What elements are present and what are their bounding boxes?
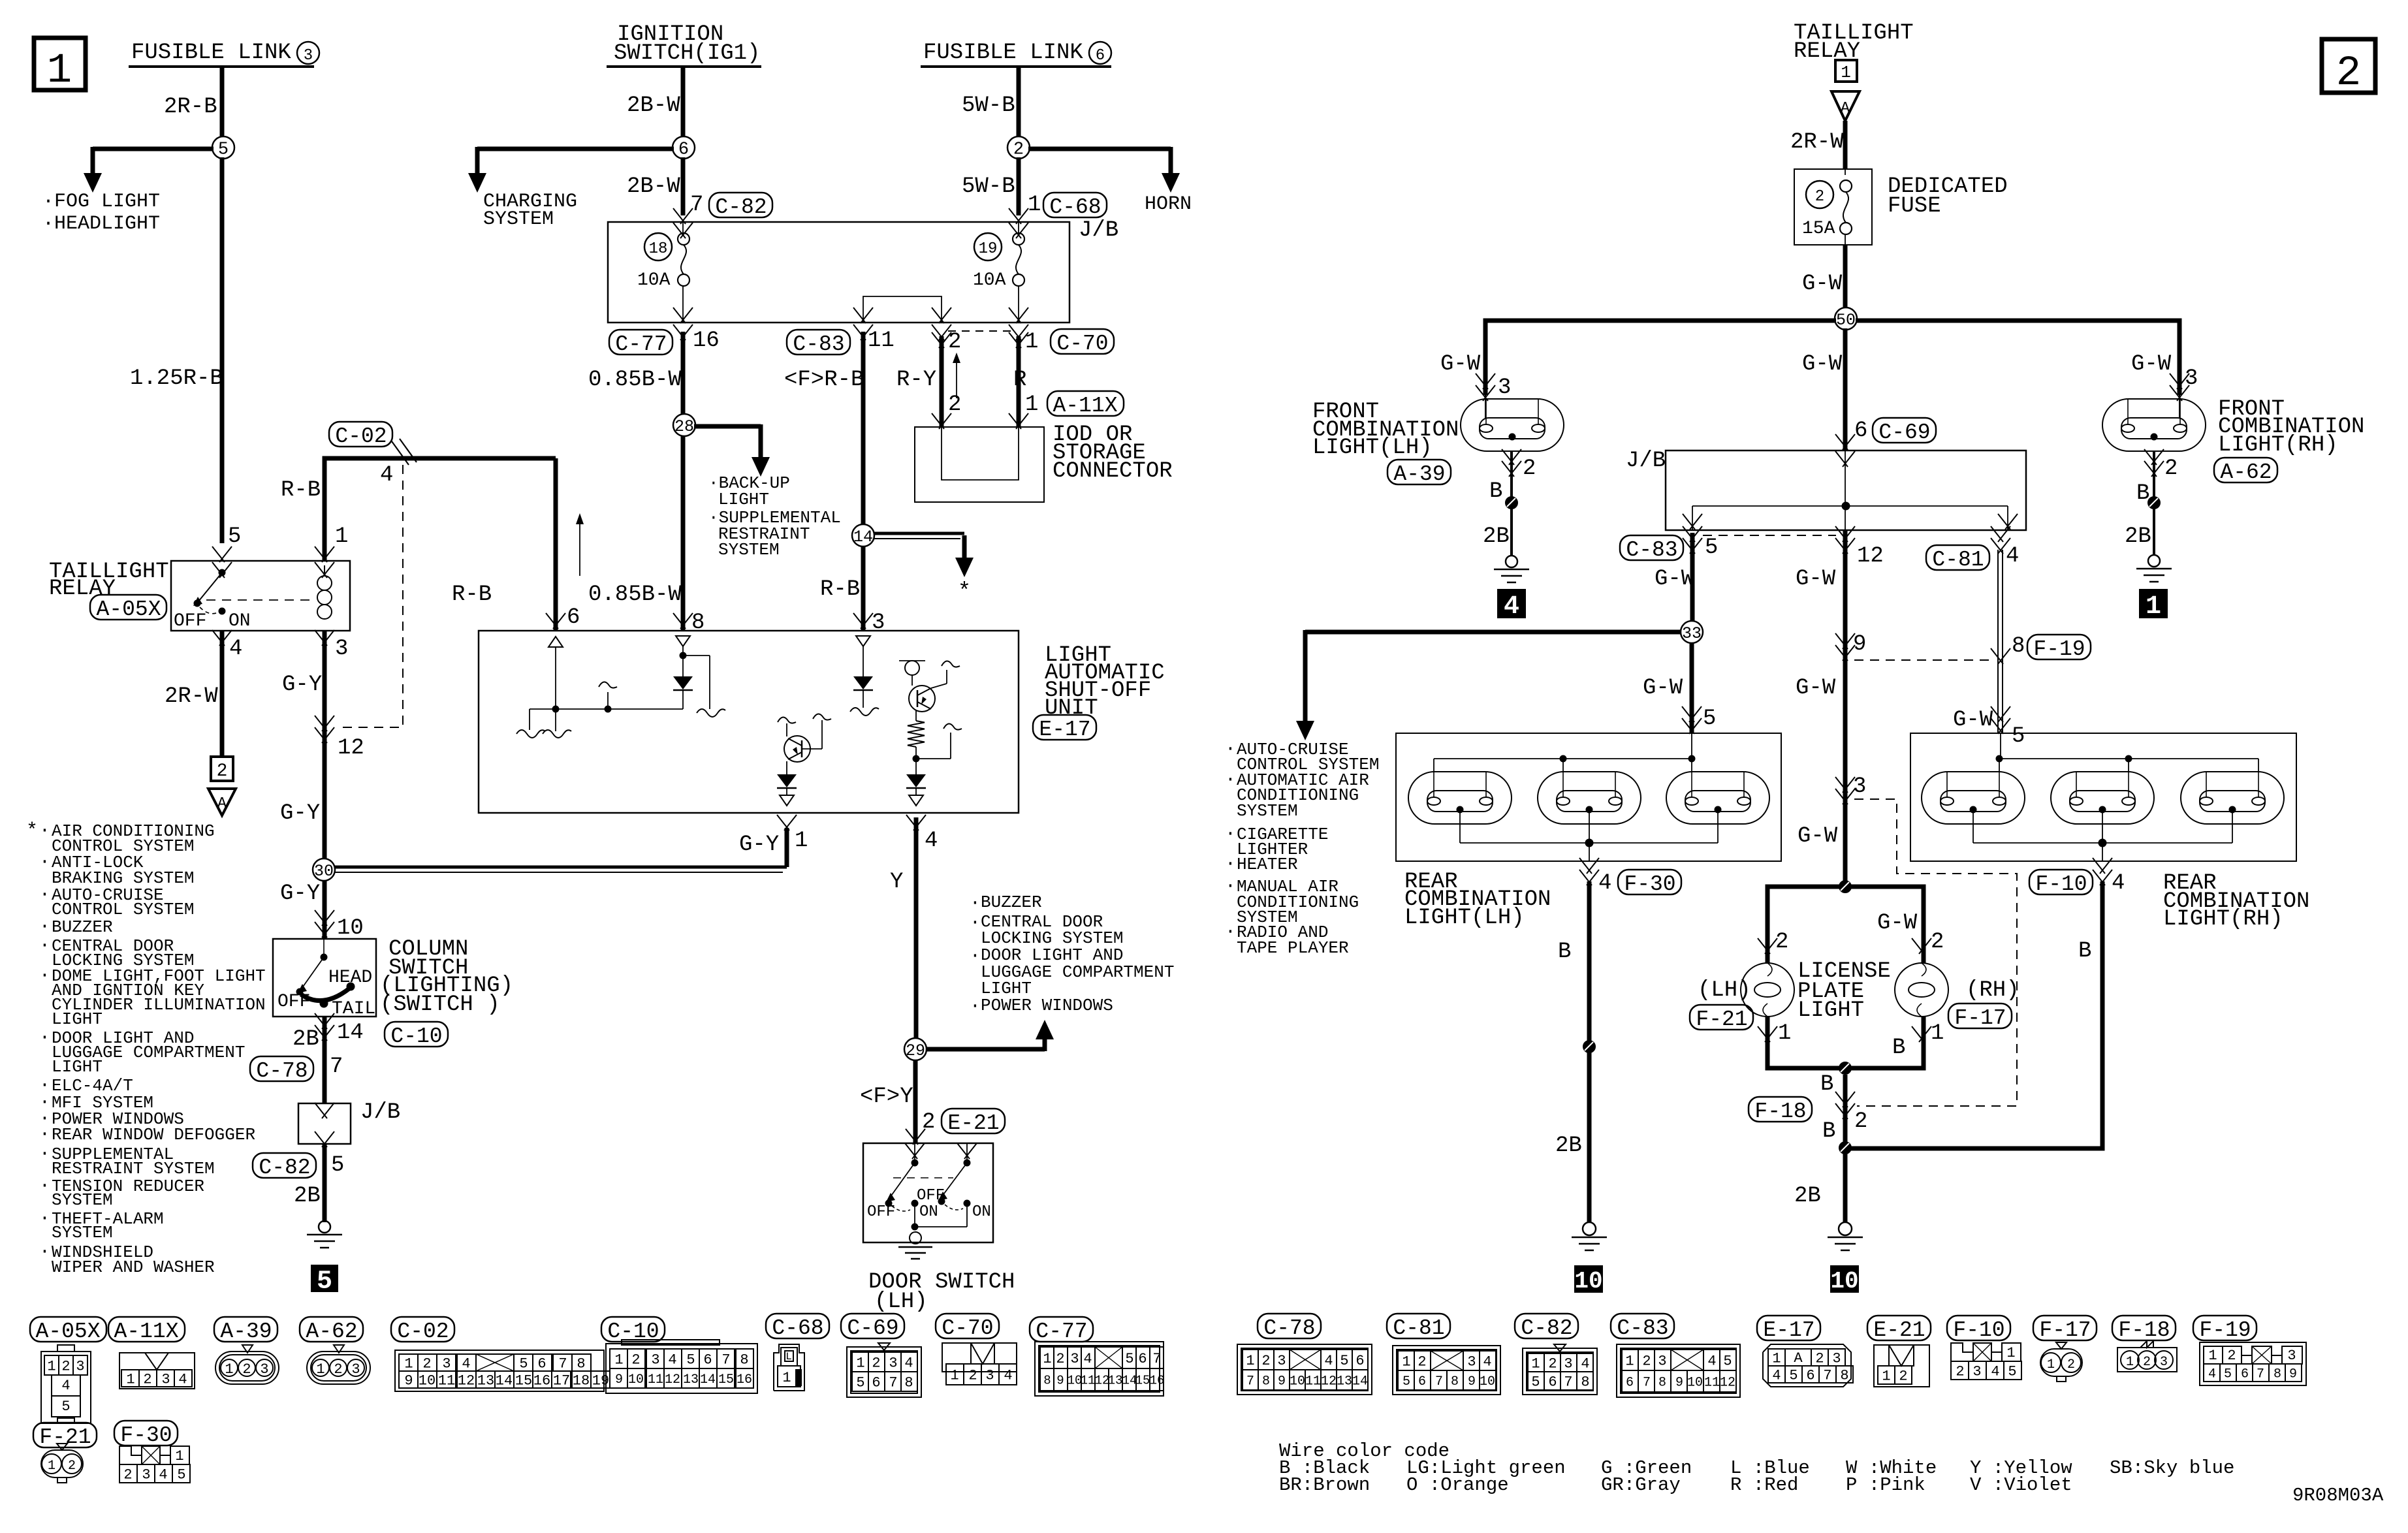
license plate loop box bbox=[1767, 881, 1924, 1074]
svg-text:2B: 2B bbox=[1555, 1133, 1582, 1158]
rear LH bulb 1 bbox=[1408, 772, 1512, 824]
svg-text:28: 28 bbox=[674, 417, 694, 436]
front combination light RH bulb bbox=[2102, 395, 2206, 451]
svg-text:7: 7 bbox=[1823, 1367, 1831, 1383]
svg-text:HEATER: HEATER bbox=[1237, 855, 1298, 874]
svg-text:11: 11 bbox=[868, 328, 895, 353]
door switch OFF ON labels bbox=[867, 1187, 991, 1221]
svg-text:3: 3 bbox=[260, 1361, 268, 1378]
pin 2 license RH bbox=[1931, 930, 1944, 955]
crossing marks on C-02 wire bbox=[392, 439, 417, 465]
pin 10 bbox=[315, 910, 364, 941]
svg-text:5: 5 bbox=[218, 140, 229, 160]
svg-text:3: 3 bbox=[1277, 1353, 1286, 1369]
wire node50 down bbox=[1843, 328, 1848, 450]
column switch box C-10 bbox=[273, 939, 376, 1017]
svg-text:2: 2 bbox=[1956, 1363, 1964, 1380]
svg-text:4: 4 bbox=[1004, 1367, 1012, 1383]
svg-text:11: 11 bbox=[1305, 1374, 1321, 1389]
black box 4 bbox=[1498, 590, 1525, 622]
svg-text:2: 2 bbox=[1418, 1353, 1426, 1370]
fuse 18 bbox=[673, 222, 693, 323]
svg-text:E-17: E-17 bbox=[1763, 1318, 1814, 1342]
label LICENSE PLATE LIGHT bbox=[1798, 959, 1891, 1023]
connector F-17 bbox=[2033, 1316, 2097, 1382]
svg-text:7: 7 bbox=[1152, 1351, 1161, 1367]
capsule F-18 bbox=[1749, 1097, 1812, 1124]
svg-text:8: 8 bbox=[1043, 1373, 1051, 1387]
wire node30 down bbox=[323, 880, 327, 939]
wire R down to IOD bbox=[1009, 332, 1028, 429]
svg-text:2: 2 bbox=[968, 1367, 977, 1383]
wire Y down to node29 bbox=[914, 817, 919, 1039]
pin 12 marks bbox=[315, 716, 364, 761]
connector E-17 bbox=[1757, 1316, 1853, 1387]
svg-text:C-02: C-02 bbox=[335, 424, 387, 449]
svg-text:LIGHT(RH): LIGHT(RH) bbox=[2218, 433, 2338, 458]
svg-text:6: 6 bbox=[537, 1355, 546, 1372]
connector A-62 bbox=[300, 1317, 370, 1384]
svg-text:18: 18 bbox=[649, 240, 668, 258]
svg-text:7: 7 bbox=[889, 1374, 897, 1391]
svg-text:4: 4 bbox=[1991, 1363, 1999, 1380]
capsule A-39 bbox=[1387, 460, 1451, 486]
rear LH internal wiring bbox=[1434, 733, 1718, 861]
svg-text:2: 2 bbox=[217, 761, 228, 782]
svg-text:5: 5 bbox=[331, 1153, 344, 1178]
wire node2 down bbox=[1017, 157, 1021, 215]
capsule F-17 bbox=[1948, 1004, 2012, 1030]
svg-text:1: 1 bbox=[1772, 1350, 1781, 1367]
svg-text:13: 13 bbox=[1337, 1374, 1352, 1389]
svg-text:3: 3 bbox=[1467, 1353, 1476, 1370]
pin 7 (C-82) bbox=[673, 193, 703, 224]
wire node2 to horn arrow bbox=[1028, 147, 1180, 193]
pin 3 (relay) bbox=[315, 630, 348, 661]
svg-text:9: 9 bbox=[1468, 1374, 1476, 1389]
svg-text:2R-W: 2R-W bbox=[165, 684, 218, 709]
svg-text:6: 6 bbox=[1548, 1374, 1557, 1390]
wire main down to license box bbox=[1843, 530, 1848, 887]
dashed link 9-8 bbox=[1854, 659, 1991, 661]
svg-text:2: 2 bbox=[334, 1361, 342, 1378]
pin 16 bbox=[673, 324, 720, 353]
label 2B-W lower bbox=[627, 174, 680, 199]
svg-text:7: 7 bbox=[2257, 1367, 2264, 1382]
svg-text:F-18: F-18 bbox=[1754, 1099, 1806, 1124]
wire 11 down (R-B) bbox=[861, 332, 866, 631]
svg-text:7: 7 bbox=[1564, 1374, 1572, 1390]
svg-text:A-39: A-39 bbox=[1393, 462, 1445, 486]
rear RH bulb 3 bbox=[2181, 772, 2284, 824]
svg-text:12: 12 bbox=[1857, 544, 1884, 569]
svg-text:0.85B-W: 0.85B-W bbox=[588, 582, 682, 607]
svg-text:3: 3 bbox=[161, 1371, 170, 1387]
svg-text:C-70: C-70 bbox=[942, 1316, 993, 1340]
svg-text:·: · bbox=[39, 1176, 50, 1196]
node 33 bbox=[1681, 621, 1703, 643]
svg-text:LIGHT(RH): LIGHT(RH) bbox=[2163, 907, 2283, 932]
svg-text:ON: ON bbox=[972, 1203, 991, 1221]
pin 2 (F-18) bbox=[1835, 1092, 1867, 1134]
pin 9 (main) bbox=[1835, 632, 1866, 661]
connector F-10 bbox=[1947, 1316, 2021, 1380]
svg-text:C-77: C-77 bbox=[1036, 1320, 1087, 1344]
wire fl6 to node 2 bbox=[1017, 67, 1021, 138]
svg-text:5: 5 bbox=[1723, 1353, 1732, 1369]
relay armature bbox=[193, 562, 334, 614]
svg-text:9: 9 bbox=[1056, 1373, 1064, 1387]
ground rear LH bbox=[1572, 1222, 1607, 1250]
svg-text:C-69: C-69 bbox=[847, 1316, 898, 1340]
svg-text:3: 3 bbox=[351, 1361, 360, 1378]
svg-text:14: 14 bbox=[337, 1020, 364, 1045]
unit: transistor Q1 bbox=[778, 714, 831, 774]
IOD box bbox=[915, 427, 1044, 502]
svg-text:9: 9 bbox=[404, 1372, 413, 1389]
label DOOR SWITCH (LH) bbox=[868, 1270, 1015, 1314]
svg-text:1: 1 bbox=[795, 829, 808, 853]
svg-text:1: 1 bbox=[1778, 1021, 1791, 1046]
light automatic shut-off unit box E-17 bbox=[479, 631, 1019, 813]
connector F-18 bbox=[2112, 1316, 2177, 1372]
label G-Y lower bbox=[280, 881, 320, 906]
wire node6 down bbox=[681, 157, 686, 215]
svg-text:2: 2 bbox=[422, 1355, 431, 1372]
label IOD OR STORAGE CONNECTOR bbox=[1053, 422, 1173, 484]
dashed link 5-12 bbox=[1703, 535, 1836, 536]
label G-Y upper bbox=[282, 672, 322, 697]
svg-text:3: 3 bbox=[2160, 1355, 2168, 1370]
svg-text:CONNECTOR: CONNECTOR bbox=[1053, 459, 1173, 484]
pin 2 (E-21) bbox=[906, 1110, 935, 1145]
svg-text:5W-B: 5W-B bbox=[962, 93, 1015, 118]
svg-text:13: 13 bbox=[1108, 1373, 1123, 1387]
svg-text:17: 17 bbox=[553, 1372, 570, 1389]
connector C-78 bbox=[1237, 1314, 1372, 1395]
svg-text:11: 11 bbox=[1081, 1373, 1096, 1387]
fuse 18 circle bbox=[644, 233, 672, 261]
label <F>Y bbox=[860, 1084, 913, 1109]
svg-text:G-W: G-W bbox=[1796, 567, 1836, 592]
label CHARGING SYSTEM bbox=[483, 191, 577, 230]
svg-text:2B: 2B bbox=[294, 1184, 321, 1209]
label 15A bbox=[1802, 219, 1835, 239]
svg-text:FUSIBLE LINK: FUSIBLE LINK bbox=[131, 40, 291, 65]
svg-text:*: * bbox=[958, 580, 971, 605]
triangle A ref bbox=[208, 789, 236, 815]
svg-text:G-W: G-W bbox=[1802, 352, 1843, 377]
J/B box panel1 bbox=[608, 218, 1118, 323]
svg-text:SYSTEM: SYSTEM bbox=[52, 1223, 113, 1242]
svg-text:A: A bbox=[1794, 1350, 1803, 1367]
svg-text:1: 1 bbox=[614, 1351, 623, 1368]
svg-text:30: 30 bbox=[314, 862, 334, 881]
double wire node30 to unit pin1 bbox=[334, 828, 787, 872]
F-19 double wire bbox=[1998, 550, 2003, 733]
pin 2 front LH bbox=[1502, 449, 1536, 481]
capsule A-11X bbox=[1047, 391, 1124, 418]
label 2R-W p2 bbox=[1790, 130, 1844, 155]
wire node6 to charging arrow bbox=[468, 147, 674, 193]
svg-text:15A: 15A bbox=[1802, 219, 1835, 239]
box 1 ref p2 bbox=[1835, 60, 1857, 82]
panel marker 2 bbox=[2322, 39, 2375, 97]
svg-text:(LH): (LH) bbox=[874, 1289, 928, 1314]
wire front LH to ground bbox=[1506, 451, 1517, 556]
svg-text:5: 5 bbox=[856, 1374, 864, 1391]
rear combination light LH box bbox=[1396, 733, 1781, 861]
capsule C-69 bbox=[1873, 418, 1936, 445]
label (RH) license bbox=[1966, 978, 2020, 1003]
svg-text:1: 1 bbox=[2208, 1348, 2217, 1364]
svg-text:2: 2 bbox=[68, 1459, 76, 1474]
svg-text:8: 8 bbox=[1840, 1367, 1848, 1383]
main rail from node 50 bbox=[1485, 321, 2179, 395]
svg-text:4: 4 bbox=[1707, 1353, 1716, 1369]
column switch contacts bbox=[296, 939, 355, 1007]
svg-text:C-10: C-10 bbox=[390, 1024, 442, 1049]
pin 2 (C-70) bbox=[932, 324, 961, 355]
capsule F-30 bbox=[1618, 870, 1681, 896]
label FRONT COMBINATION LIGHT(LH) bbox=[1312, 400, 1459, 460]
wire node33 to autocruise arrow bbox=[1296, 630, 1681, 740]
svg-text:A-11X: A-11X bbox=[114, 1320, 178, 1344]
svg-text:1: 1 bbox=[2126, 1355, 2134, 1370]
svg-text:9: 9 bbox=[1853, 632, 1866, 657]
svg-text:8: 8 bbox=[904, 1374, 913, 1391]
connector E-21 bbox=[1867, 1316, 1931, 1387]
svg-text:CONTROL SYSTEM: CONTROL SYSTEM bbox=[52, 900, 194, 919]
svg-text:1: 1 bbox=[782, 1370, 791, 1386]
svg-text:OFF: OFF bbox=[867, 1203, 895, 1221]
svg-text:2: 2 bbox=[1523, 456, 1536, 481]
svg-text:1: 1 bbox=[1882, 1368, 1890, 1384]
capsule E-21 mid bbox=[942, 1109, 1005, 1135]
pin 1 (C-68) bbox=[1009, 193, 1041, 224]
label G-W right rail bbox=[2131, 352, 2172, 377]
svg-text:F-17: F-17 bbox=[1954, 1006, 2006, 1030]
svg-text:2: 2 bbox=[1013, 140, 1024, 160]
svg-text:·: · bbox=[1225, 922, 1236, 942]
svg-text:2B: 2B bbox=[293, 1027, 319, 1052]
svg-text:1: 1 bbox=[950, 1367, 958, 1383]
svg-text:A-62: A-62 bbox=[2220, 460, 2272, 484]
label 1.25R-B bbox=[130, 366, 223, 391]
wire node33 down to rear LH bbox=[1690, 642, 1694, 733]
label R bbox=[1013, 368, 1026, 392]
svg-text:·: · bbox=[970, 893, 981, 913]
label 2B main bbox=[1794, 1184, 1821, 1209]
node 30 bbox=[313, 859, 335, 881]
svg-text:J/B: J/B bbox=[1626, 449, 1666, 473]
svg-text:1: 1 bbox=[1625, 1353, 1634, 1369]
svg-text:4: 4 bbox=[2006, 544, 2019, 569]
pin 4 label (C-02) bbox=[380, 463, 393, 488]
svg-text:11: 11 bbox=[648, 1372, 663, 1387]
svg-text:2B-W: 2B-W bbox=[627, 174, 680, 199]
svg-text:·: · bbox=[39, 821, 50, 841]
dashed wire C-02-4 to pin 12 bbox=[337, 465, 403, 727]
svg-text:1: 1 bbox=[1246, 1353, 1254, 1369]
label G-W (main mid) bbox=[1796, 567, 1836, 592]
wire ign to node 6 bbox=[681, 67, 686, 138]
wire relay pin3 G-Y down bbox=[323, 631, 327, 859]
svg-text:G-W: G-W bbox=[1440, 352, 1481, 377]
svg-text:5: 5 bbox=[1705, 535, 1718, 560]
wire R-Y down to IOD bbox=[932, 332, 951, 429]
svg-text:1: 1 bbox=[2006, 1345, 2015, 1361]
svg-text:8: 8 bbox=[577, 1355, 585, 1372]
relay coil bbox=[317, 565, 332, 619]
wire node5 down 1.25R-B bbox=[220, 157, 225, 543]
svg-text:1: 1 bbox=[1028, 193, 1041, 217]
node 2 bbox=[1007, 136, 1030, 160]
capsule C-82 top bbox=[709, 193, 772, 219]
svg-text:10A: 10A bbox=[637, 270, 671, 291]
svg-text:1: 1 bbox=[1402, 1353, 1410, 1370]
svg-text:F-19: F-19 bbox=[2199, 1318, 2251, 1342]
svg-text:R-B: R-B bbox=[820, 577, 860, 602]
pin 4 (F-10) bbox=[2093, 858, 2125, 896]
svg-text:C-68: C-68 bbox=[772, 1316, 823, 1340]
svg-text:9: 9 bbox=[2289, 1367, 2297, 1382]
svg-text:14: 14 bbox=[496, 1372, 513, 1389]
svg-text:11: 11 bbox=[438, 1372, 455, 1389]
svg-text:12: 12 bbox=[1720, 1375, 1735, 1390]
svg-text:G-Y: G-Y bbox=[280, 801, 320, 826]
J/B2 internal wires bbox=[1683, 450, 2018, 530]
svg-text:1: 1 bbox=[175, 1448, 183, 1464]
svg-text:·: · bbox=[39, 1028, 50, 1048]
svg-text:SYSTEM: SYSTEM bbox=[483, 208, 554, 230]
svg-text:G-W: G-W bbox=[1953, 708, 1993, 733]
svg-text:3: 3 bbox=[985, 1367, 994, 1383]
svg-text:C-81: C-81 bbox=[1932, 548, 1984, 572]
svg-text:2: 2 bbox=[1056, 1351, 1064, 1367]
svg-text:1: 1 bbox=[2146, 592, 2161, 622]
label R-B mid bbox=[452, 582, 492, 607]
svg-text:16: 16 bbox=[693, 328, 720, 353]
svg-text:1: 1 bbox=[856, 1355, 864, 1371]
pin 2 labels (A-11X) bbox=[948, 392, 961, 417]
label R-B lower bbox=[820, 577, 860, 602]
svg-text:(SWITCH ): (SWITCH ) bbox=[380, 992, 500, 1017]
svg-text:5: 5 bbox=[1340, 1353, 1348, 1369]
unit: light sensor bbox=[899, 661, 960, 686]
capsule C-02 bbox=[329, 422, 392, 449]
label 5W-B upper bbox=[962, 93, 1015, 118]
chevrons J/B small bbox=[315, 1103, 334, 1147]
svg-text:6: 6 bbox=[1355, 1353, 1364, 1369]
pin 11 bbox=[853, 324, 895, 353]
svg-text:C-81: C-81 bbox=[1393, 1316, 1444, 1340]
svg-text:SYSTEM: SYSTEM bbox=[52, 1190, 113, 1210]
node 6 bbox=[673, 136, 695, 160]
svg-text:7: 7 bbox=[721, 1351, 730, 1368]
label 2B (C-78) bbox=[293, 1027, 319, 1052]
svg-text:F-30: F-30 bbox=[120, 1423, 172, 1447]
svg-text:BR:Brown: BR:Brown bbox=[1279, 1474, 1370, 1496]
svg-text:E-21: E-21 bbox=[1873, 1318, 1925, 1342]
svg-text:A-05X: A-05X bbox=[96, 597, 161, 622]
label B rear RH bbox=[2078, 939, 2091, 964]
svg-text:4: 4 bbox=[2112, 871, 2125, 896]
svg-text:C-70: C-70 bbox=[1056, 332, 1108, 356]
svg-text:4: 4 bbox=[462, 1355, 470, 1372]
svg-text:TAPE PLAYER: TAPE PLAYER bbox=[1237, 938, 1349, 958]
svg-text:4: 4 bbox=[2208, 1367, 2216, 1382]
svg-text:B: B bbox=[1489, 479, 1502, 504]
svg-text:2: 2 bbox=[242, 1361, 251, 1378]
node 28 bbox=[673, 414, 695, 436]
svg-text:F-18: F-18 bbox=[2118, 1318, 2170, 1342]
relay OFF ON labels bbox=[174, 611, 251, 631]
svg-text:C-83: C-83 bbox=[1626, 538, 1677, 562]
svg-text:SWITCH(IG1): SWITCH(IG1) bbox=[614, 41, 760, 66]
wire R-B to unit pin6 bbox=[554, 458, 558, 631]
svg-text:1: 1 bbox=[48, 1459, 55, 1474]
svg-text:G-W: G-W bbox=[1802, 272, 1843, 296]
capsule C-78 bbox=[250, 1056, 313, 1083]
svg-text:·: · bbox=[970, 996, 981, 1017]
pin 5 (C-83) bbox=[1683, 526, 1718, 560]
pin 4 (F-30) bbox=[1579, 858, 1611, 896]
svg-text:OFF: OFF bbox=[277, 992, 310, 1012]
svg-text:4: 4 bbox=[904, 1355, 913, 1371]
connector C-82 bbox=[1515, 1314, 1597, 1395]
svg-text:2: 2 bbox=[2227, 1348, 2236, 1364]
svg-text:2: 2 bbox=[2067, 1357, 2075, 1372]
svg-text:18: 18 bbox=[573, 1372, 590, 1389]
svg-text:5: 5 bbox=[228, 524, 241, 549]
svg-text:·: · bbox=[39, 1209, 50, 1229]
svg-text:C-78: C-78 bbox=[1263, 1316, 1315, 1340]
svg-text:C-82: C-82 bbox=[259, 1156, 310, 1180]
svg-text:2: 2 bbox=[872, 1355, 880, 1371]
label G-W c83 lower bbox=[1643, 676, 1683, 701]
label B below license bbox=[1820, 1072, 1833, 1097]
svg-text:5: 5 bbox=[177, 1466, 185, 1483]
svg-text:SYSTEM: SYSTEM bbox=[1237, 801, 1298, 821]
svg-text:·: · bbox=[39, 885, 50, 905]
label LIGHT AUTOMATIC SHUT-OFF UNIT bbox=[1045, 643, 1165, 721]
svg-text:BUZZER: BUZZER bbox=[981, 893, 1042, 912]
svg-text:1: 1 bbox=[47, 48, 72, 95]
system list panel2 bbox=[1225, 739, 1379, 958]
label 2B rear LH bbox=[1555, 1133, 1582, 1158]
black box 5 bbox=[311, 1265, 338, 1296]
svg-text:·: · bbox=[39, 1144, 50, 1164]
black box 10 left bbox=[1574, 1266, 1602, 1295]
J/B exit chevrons bbox=[673, 308, 1028, 323]
wire node14 to AC arrow bbox=[874, 533, 974, 577]
svg-text:1: 1 bbox=[1025, 392, 1038, 417]
dedicated fuse element bbox=[1840, 169, 1852, 245]
label G-W f19 bbox=[1953, 708, 1993, 733]
svg-text:4: 4 bbox=[1772, 1367, 1781, 1383]
svg-text:·: · bbox=[1225, 739, 1236, 759]
unit: diode D3 to pin1 bbox=[777, 774, 797, 806]
svg-text:·HEADLIGHT: ·HEADLIGHT bbox=[42, 213, 160, 235]
svg-text:L: L bbox=[785, 1351, 792, 1363]
svg-text:5: 5 bbox=[2012, 724, 2025, 749]
svg-text:9R08M03A: 9R08M03A bbox=[2292, 1485, 2384, 1506]
wire node28 to backup arrow bbox=[694, 424, 770, 477]
svg-text:7: 7 bbox=[1435, 1374, 1443, 1389]
svg-text:1: 1 bbox=[1841, 63, 1851, 82]
svg-text:C-69: C-69 bbox=[1878, 420, 1930, 445]
